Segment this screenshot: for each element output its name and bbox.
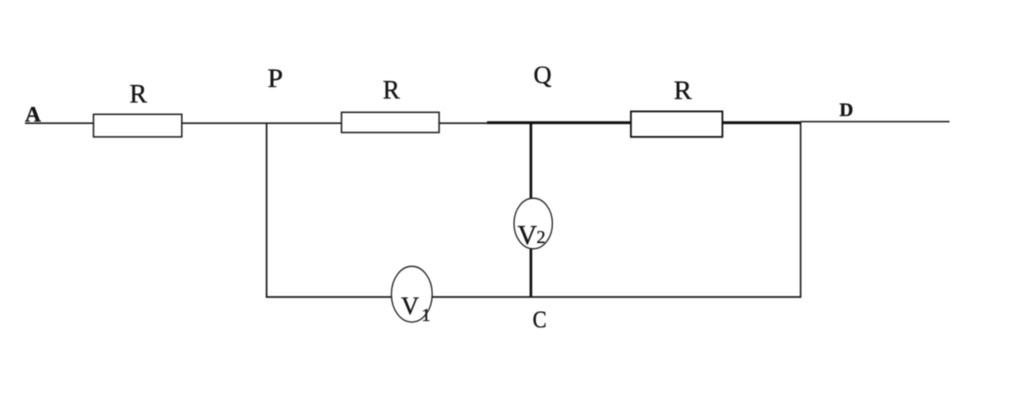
svg-text:D: D — [840, 100, 854, 121]
svg-text:Q: Q — [534, 62, 552, 89]
svg-text:R: R — [130, 79, 148, 108]
wire bottom P to C to right — [266, 296, 802, 298]
wire A to R1 — [25, 122, 94, 124]
resistor R3 — [631, 111, 723, 136]
svg-text:P: P — [268, 64, 284, 93]
voltmeter V2 ellipse — [514, 198, 552, 249]
voltmeter V1 ellipse — [391, 266, 432, 322]
wire R1 to P to R2 — [181, 122, 342, 124]
wire right vertical — [800, 122, 802, 298]
wire thick Q bus — [487, 121, 801, 124]
svg-text:V: V — [518, 220, 538, 250]
svg-text:V: V — [401, 293, 419, 320]
wire P vertical — [266, 123, 268, 298]
wire R2 to thick segment — [438, 122, 488, 124]
svg-text:2: 2 — [537, 227, 546, 247]
svg-text:C: C — [533, 307, 547, 333]
svg-text:1: 1 — [422, 305, 431, 325]
wire Q vertical through V2 — [530, 122, 533, 298]
wire D to right end — [801, 121, 950, 123]
svg-text:R: R — [674, 76, 693, 105]
resistor R2 — [342, 112, 440, 132]
resistor R1 — [94, 114, 182, 137]
svg-text:A: A — [25, 102, 41, 127]
svg-text:R: R — [383, 75, 401, 104]
